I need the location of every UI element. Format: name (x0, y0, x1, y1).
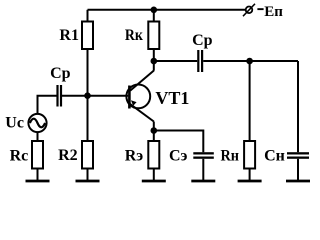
wire R2 ground lead (87, 170, 89, 181)
wire input from Cp left to Uc (38, 96, 57, 114)
wire emitter node to Ce (154, 131, 204, 153)
svg-text:Rэ: Rэ (125, 147, 144, 164)
wire collector node to output Cp (154, 60, 197, 62)
node emitter junction dot (151, 127, 158, 134)
capacitor Cp output plates (197, 50, 203, 72)
ground under Ce (191, 180, 215, 183)
capacitor Ce plates (193, 152, 214, 159)
resistor Rc (32, 141, 43, 169)
terminal -Ep (243, 4, 255, 16)
resistor R2 (82, 141, 93, 169)
svg-text:Rн: Rн (221, 147, 240, 164)
resistor Re (148, 141, 159, 169)
wire collector lead vertical (153, 61, 155, 71)
wire Ce ground lead (202, 159, 204, 180)
node collector junction dot (151, 58, 158, 65)
wire output Cp to load node (203, 60, 298, 62)
svg-text:R1: R1 (59, 27, 79, 44)
svg-text:R2: R2 (58, 147, 78, 164)
wire top supply rail (88, 9, 246, 11)
wire Rk bottom to collector node (153, 50, 155, 61)
svg-text:Cр: Cр (50, 65, 71, 82)
wire base wire from Cp to VT1 base (62, 95, 129, 97)
node output junction dot (246, 58, 253, 65)
wire Rc ground lead (37, 170, 39, 181)
wire R1 top lead (87, 10, 89, 21)
wire to Cn (297, 61, 299, 152)
node base junction dot (84, 92, 91, 99)
wire load node to Rn (249, 61, 251, 140)
wire Uc to Rc (37, 132, 39, 140)
ground under Rc (26, 180, 50, 183)
ground under Rn (238, 180, 262, 183)
wire Rk top lead (153, 10, 155, 21)
transistor VT1 (126, 85, 150, 109)
wire VT1 collector diagonal (130, 71, 154, 91)
wire R1 to base node to R2 (87, 50, 89, 140)
svg-text:Rс: Rс (10, 148, 29, 165)
svg-text:Rк: Rк (125, 27, 144, 44)
svg-text:Cр: Cр (192, 32, 213, 49)
ground under Re (142, 180, 166, 183)
svg-text:Eп: Eп (264, 4, 283, 20)
wire emitter node to Re (153, 131, 155, 141)
label -Ep (257, 4, 283, 20)
ground under Cn (286, 180, 310, 183)
svg-text:Cэ: Cэ (169, 148, 188, 165)
ground under R2 (76, 180, 100, 183)
wire VT1 emitter diagonal (130, 104, 154, 122)
resistor Rn (244, 141, 255, 169)
resistor Rk (148, 22, 159, 50)
svg-text:Cн: Cн (264, 148, 285, 165)
source Uc circle with sine (28, 114, 46, 132)
resistor R1 (82, 22, 93, 50)
wire Cn ground lead (297, 159, 299, 180)
wire Re ground lead (153, 170, 155, 181)
wire emitter lead vertical (153, 122, 155, 131)
node Rk top junction dot (151, 7, 158, 14)
capacitor Cp input plates (56, 85, 62, 107)
svg-text:Uс: Uс (5, 115, 24, 132)
svg-text:VT1: VT1 (155, 88, 189, 108)
wire Rn ground lead (249, 170, 251, 181)
capacitor Cn plates (287, 152, 309, 159)
